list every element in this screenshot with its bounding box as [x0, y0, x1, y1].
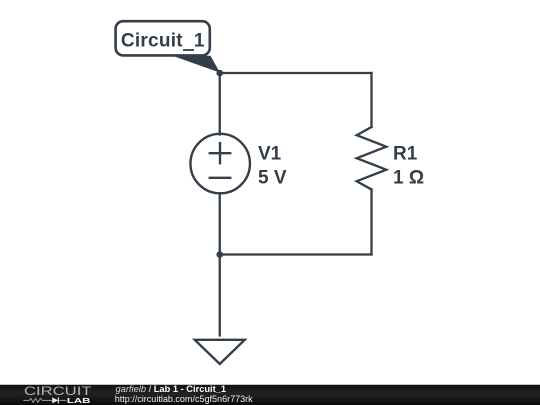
- svg-text:http://circuitlab.com/c5gf5n6r: http://circuitlab.com/c5gf5n6r773rk: [115, 394, 253, 404]
- svg-text:Circuit 1: Circuit 1: [121, 30, 205, 51]
- voltage source V1 circle: [190, 134, 250, 194]
- svg-text:V1: V1: [258, 144, 282, 165]
- wire node B down to ground: [219, 255, 221, 336]
- svg-text:R1: R1: [393, 144, 418, 165]
- CircuitLab logo mini diode: [52, 397, 58, 403]
- svg-text:LAB: LAB: [67, 396, 91, 405]
- V1 plus sign: [210, 152, 230, 154]
- V1 minus sign: [210, 177, 230, 179]
- wire node A down to V1 top terminal: [219, 73, 221, 135]
- wire right branch upper vertical: [370, 73, 372, 127]
- wire bottom horizontal to node B: [220, 253, 372, 255]
- svg-text:5 V: 5 V: [258, 168, 287, 189]
- wire right branch lower vertical: [370, 190, 372, 255]
- node label Circuit_1 underscore: [183, 49, 194, 51]
- node label Circuit_1 pointer tail: [173, 56, 220, 73]
- CircuitLab logo mini resistor: [29, 398, 42, 402]
- footer bar: [0, 385, 540, 405]
- CircuitLab logo mini wire after diode: [59, 399, 66, 401]
- node label Circuit_1 bubble: [116, 21, 210, 55]
- CircuitLab logo mini schematic wire: [23, 398, 66, 402]
- wire V1 bottom terminal to node B: [219, 193, 221, 254]
- node B junction dot: [216, 251, 223, 258]
- wire top horizontal from node A to resistor branch: [220, 72, 372, 74]
- svg-text:garfielb / Lab 1 - Circuit_1: garfielb / Lab 1 - Circuit_1: [116, 384, 227, 394]
- resistor R1 zigzag: [357, 127, 387, 190]
- node A junction dot: [216, 70, 223, 77]
- CircuitLab logo mini wire to diode: [42, 399, 52, 401]
- svg-text:1 Ω: 1 Ω: [393, 168, 424, 189]
- ground symbol: [195, 340, 245, 364]
